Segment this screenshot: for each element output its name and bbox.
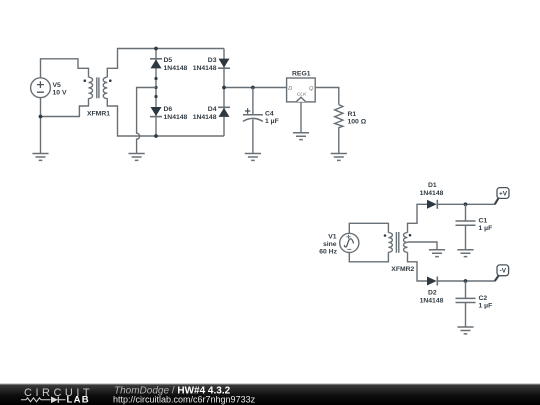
wire V5 bottom node to XFMR1 primary bottom [41, 98, 89, 116]
wire REG1 Q to R1 [315, 88, 339, 105]
diode D1 [427, 200, 437, 209]
diode D3 [218, 59, 230, 69]
svg-text:XFMR1: XFMR1 [87, 111, 110, 118]
svg-text:+V: +V [499, 190, 508, 197]
wire XFMR1 secondary top to bridge top rail [107, 49, 224, 78]
svg-text:LAB: LAB [67, 395, 90, 405]
svg-text:C1: C1 [479, 218, 488, 225]
svg-text:D5: D5 [164, 57, 173, 64]
wire V5 bottom to ground [40, 98, 42, 154]
label V1 sine 60 Hz [319, 234, 337, 256]
junction dot top rail [154, 47, 158, 51]
svg-text:1N4148: 1N4148 [193, 114, 217, 121]
junction dot +V node [464, 202, 468, 206]
wire V1 bottom to XFMR2 primary bottom [349, 252, 388, 261]
capacitor C4 [243, 88, 263, 154]
ground (C4) [245, 154, 261, 161]
wire XFMR2 secondary bottom to D2 [408, 252, 428, 281]
ground (V5) [32, 154, 48, 161]
junction dot left branch upper [154, 77, 157, 80]
svg-text:1 µF: 1 µF [479, 225, 493, 232]
junction dot left branch middle [154, 86, 157, 89]
svg-text:D1: D1 [428, 182, 437, 189]
svg-text:Q: Q [309, 86, 314, 92]
svg-text:D: D [288, 86, 292, 92]
svg-text:D4: D4 [208, 106, 217, 113]
svg-text:1N4148: 1N4148 [420, 190, 444, 197]
svg-text:sine: sine [323, 241, 337, 248]
svg-text:10 V: 10 V [53, 89, 67, 96]
svg-text:http://circuitlab.com/c6r7nhgn: http://circuitlab.com/c6r7nhgn9733z [113, 395, 256, 405]
diode D4 [218, 107, 230, 117]
junction dot bottom rail [154, 134, 158, 138]
label C1 1 uF [479, 218, 493, 232]
label D5 1N4148 [164, 57, 188, 72]
svg-text:1 µF: 1 µF [265, 118, 279, 125]
ground (R1) [331, 154, 347, 161]
svg-text:1N4148: 1N4148 [193, 65, 217, 72]
svg-text:100 Ω: 100 Ω [348, 119, 367, 126]
svg-text:REG1: REG1 [292, 71, 311, 78]
label D4 1N4148 [193, 106, 217, 121]
diode D5 [150, 59, 162, 69]
wire D2 to -V node [437, 280, 495, 282]
label C4 1 uF [265, 111, 279, 125]
label R1 100 ohm [348, 111, 367, 126]
ground (C2) [457, 327, 473, 334]
svg-text:R1: R1 [348, 111, 357, 118]
svg-text:1N4148: 1N4148 [164, 65, 188, 72]
svg-text:C2: C2 [479, 295, 488, 302]
wire REG1 clk to ground [300, 102, 302, 133]
wire V5 top to XFMR1 primary top [41, 59, 89, 78]
transformer XFMR2 [384, 232, 412, 253]
svg-text:CLK: CLK [297, 92, 307, 98]
label D3 1N4148 [193, 57, 217, 72]
wire right bridge branch [223, 49, 225, 137]
label D1 1N4148 [420, 182, 444, 197]
svg-text:C4: C4 [265, 111, 274, 118]
ground (REG1) [293, 133, 309, 140]
ground (bridge mid-left) [129, 154, 145, 161]
wire D1 to +V node [437, 203, 495, 205]
svg-text:D2: D2 [428, 290, 437, 297]
label D2 1N4148 [420, 290, 444, 305]
svg-text:XFMR2: XFMR2 [391, 266, 414, 273]
wire V1 top to XFMR2 primary top [349, 223, 388, 233]
junction dot -V node [464, 279, 468, 283]
wire left bridge branch [155, 49, 157, 137]
transformer XFMR1 [84, 77, 112, 98]
voltage source V5 [31, 78, 51, 98]
ground (center tap) [429, 250, 445, 257]
svg-text:D6: D6 [164, 106, 173, 113]
wire XFMR2 center tap to ground [408, 242, 438, 250]
diode D2 [427, 277, 437, 286]
wire bridge output node to REG1 D [224, 87, 287, 89]
ground (C1) [457, 250, 473, 257]
svg-text:D3: D3 [208, 57, 217, 64]
CircuitLab logo [21, 387, 93, 405]
net flag +V [495, 188, 509, 205]
svg-text:-V: -V [500, 268, 507, 275]
voltage source V1 [340, 233, 359, 252]
svg-text:V1: V1 [328, 234, 337, 241]
svg-text:1 µF: 1 µF [479, 302, 493, 309]
label D6 1N4148 [164, 106, 188, 121]
resistor R1 [335, 105, 343, 154]
wire XFMR1 secondary bottom to bridge bottom rail [107, 98, 224, 136]
wire bridge mid-left node to ground (hop over bottom rail) [137, 88, 156, 154]
label V5 10 V [53, 82, 67, 96]
IC REG1 [287, 78, 316, 102]
svg-text:1N4148: 1N4148 [164, 114, 188, 121]
label C2 1 uF [479, 295, 493, 309]
svg-text:1N4148: 1N4148 [420, 297, 444, 304]
net flag -V [495, 265, 509, 281]
junction dot C4 tap [251, 86, 255, 90]
svg-text:V5: V5 [53, 82, 62, 89]
diode D6 [150, 107, 162, 117]
junction dot bridge output [222, 86, 226, 90]
capacitor C2 [456, 281, 476, 327]
svg-text:60 Hz: 60 Hz [319, 249, 337, 256]
wire XFMR2 secondary top to D1 [408, 204, 428, 232]
capacitor C1 [456, 204, 476, 249]
junction dot V5 bottom node [39, 115, 43, 119]
junction dot left branch lower [154, 95, 157, 98]
